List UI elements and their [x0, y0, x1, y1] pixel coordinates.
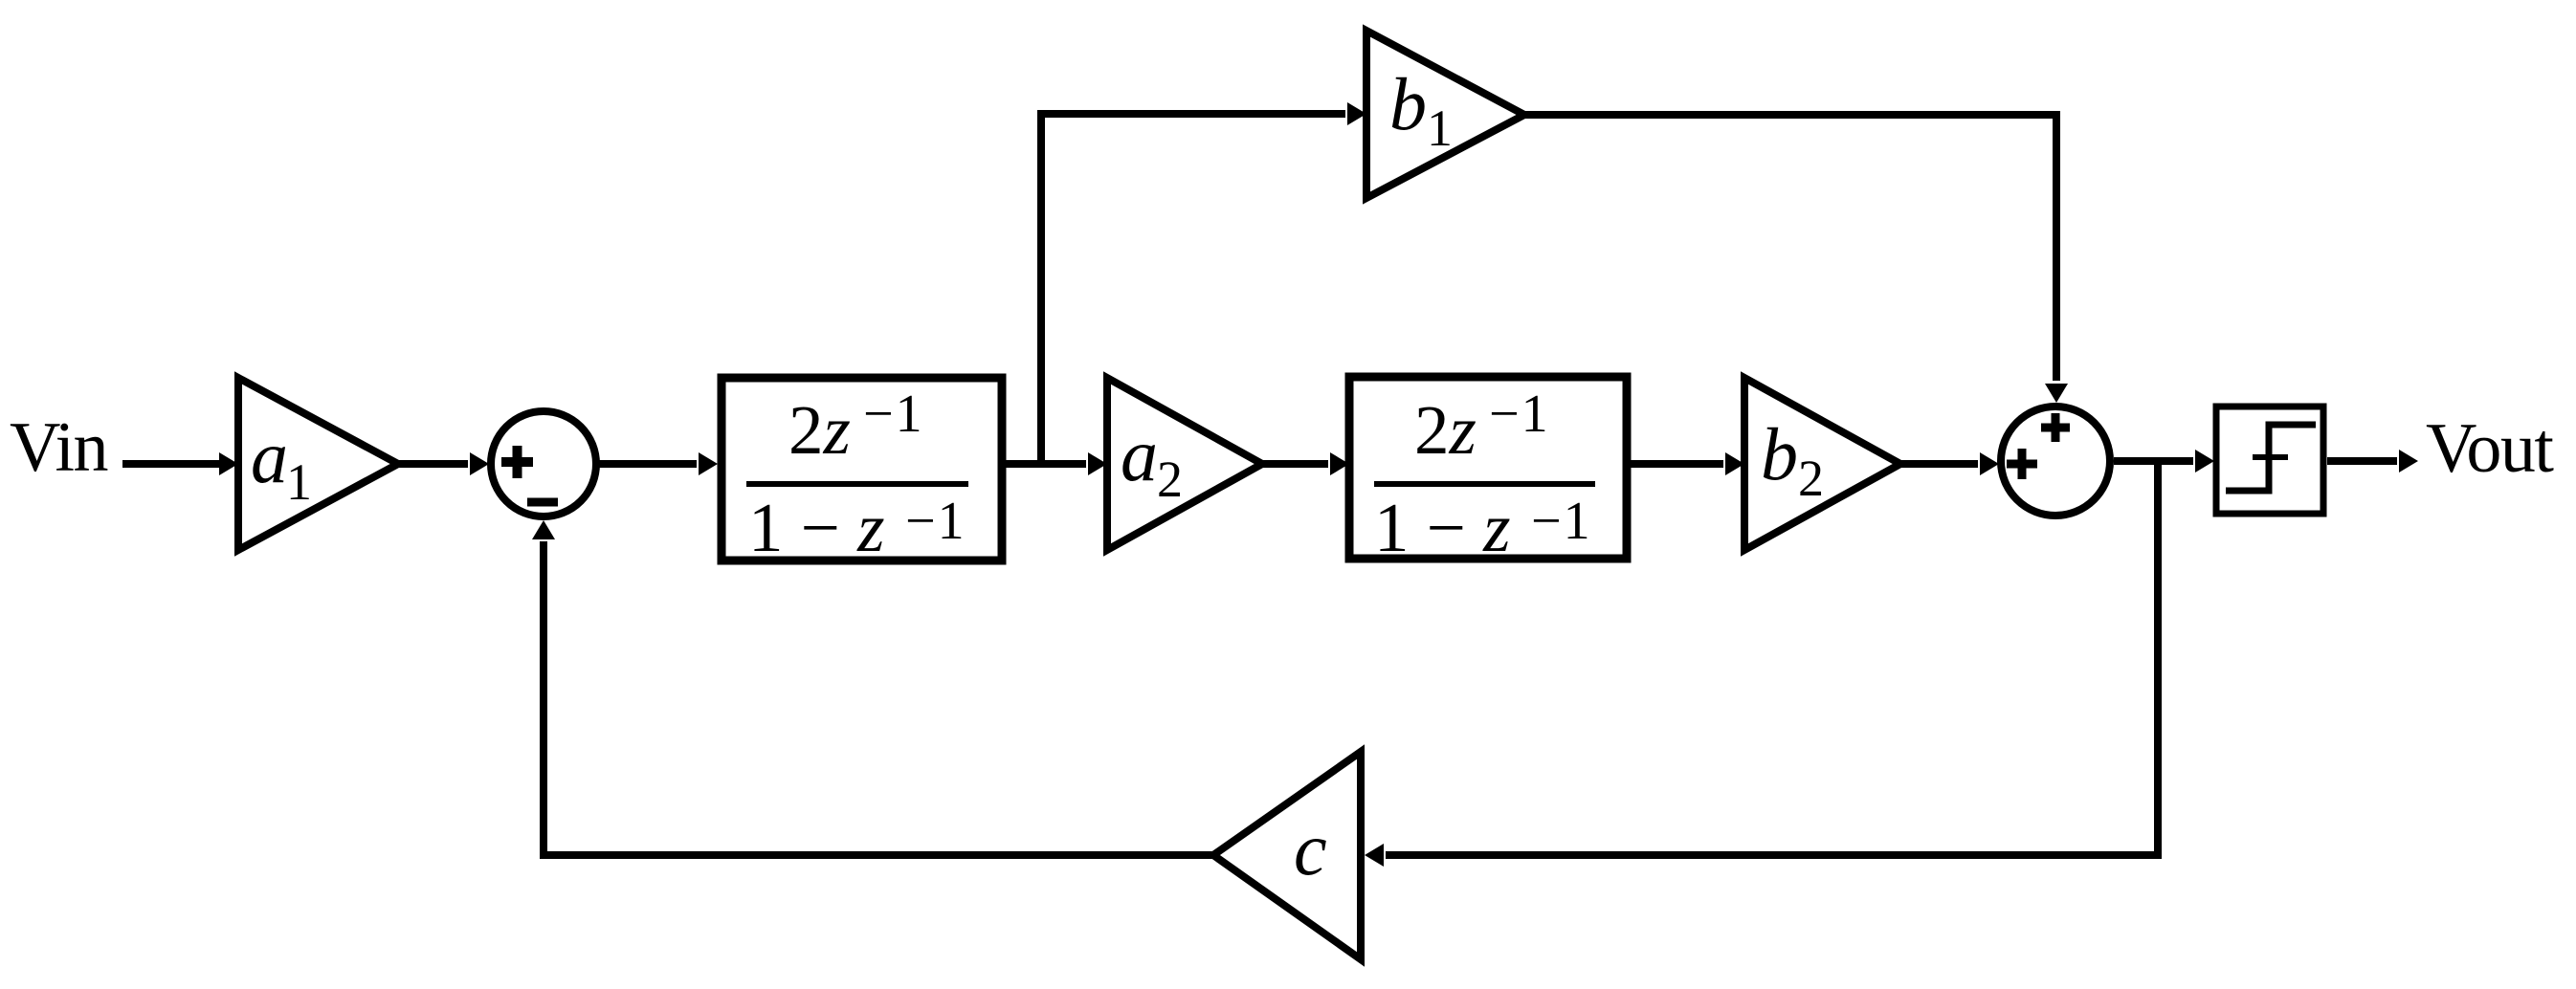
plus sign S2 top — [2041, 424, 2070, 432]
amplifier a2 — [1107, 378, 1262, 550]
wire box2 to b2 — [1627, 460, 1723, 468]
summing junction S1 — [491, 411, 596, 516]
amplifier a1 — [238, 378, 398, 550]
svg-text:Vin: Vin — [10, 408, 108, 487]
quantizer axis — [2253, 454, 2288, 460]
svg-text:a: a — [1121, 413, 1158, 496]
svg-text:−1: −1 — [863, 385, 924, 444]
svg-text:b: b — [1389, 62, 1427, 145]
svg-text:b: b — [1761, 412, 1798, 495]
wire S2 to quantizer with feedback tap — [2114, 457, 2193, 465]
amplifier b1 — [1366, 31, 1524, 198]
feedback wire from c to bottom of S1 — [544, 541, 1213, 855]
plus sign S2 left — [2007, 460, 2037, 469]
feedback wire down from tap to c — [1386, 461, 2158, 855]
wire a2 to integrator box 2 — [1262, 460, 1328, 468]
svg-text:Vout: Vout — [2426, 409, 2554, 488]
wire S1 to integrator box 1 — [596, 460, 697, 468]
svg-text:1: 1 — [286, 453, 312, 511]
wire quantizer to Vout — [2327, 457, 2397, 465]
minus sign S1 — [527, 498, 558, 507]
wire box1 to a2 with branch junction — [1002, 460, 1086, 468]
svg-text:1: 1 — [1427, 99, 1453, 157]
amplifier b2 — [1744, 378, 1900, 550]
integrator block 2 : 2z^-1 / (1-z^-1) — [1349, 377, 1627, 559]
wire b2 to summer S2 — [1900, 460, 1978, 468]
svg-text:−1: −1 — [905, 492, 966, 551]
summing junction S2 — [2001, 407, 2110, 516]
svg-text:1 − z: 1 − z — [748, 489, 885, 566]
svg-text:2z: 2z — [788, 391, 851, 469]
quantizer step — [2226, 425, 2316, 491]
svg-text:1 − z: 1 − z — [1374, 489, 1511, 566]
svg-text:2: 2 — [1157, 451, 1183, 508]
svg-text:−1: −1 — [1489, 385, 1550, 444]
wire b1 to top of summer S2 — [1524, 115, 2056, 381]
svg-text:2z: 2z — [1414, 391, 1477, 469]
quantizer block — [2216, 407, 2323, 514]
wire a1 to summer S1 — [398, 460, 468, 468]
svg-text:2: 2 — [1798, 450, 1824, 507]
amplifier c (feedback, pointing left) — [1213, 752, 1361, 959]
svg-text:−1: −1 — [1531, 492, 1592, 551]
wire Vin to a1 — [122, 460, 219, 468]
svg-text:a: a — [251, 415, 288, 498]
svg-text:c: c — [1294, 807, 1327, 890]
wire branch up to b1 — [1041, 114, 1345, 464]
integrator block 1 : 2z^-1 / (1-z^-1) — [722, 378, 1002, 560]
plus sign S1 — [501, 457, 533, 467]
